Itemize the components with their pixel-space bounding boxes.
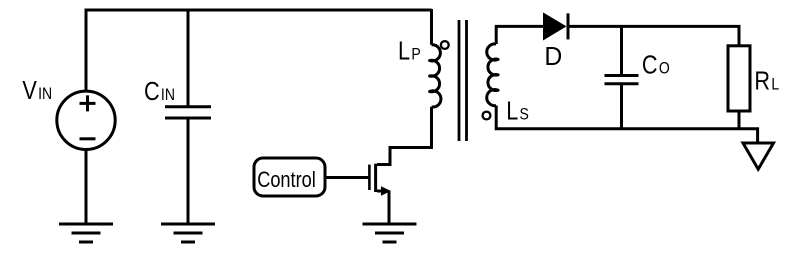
svg-text:CO: CO	[642, 52, 670, 80]
svg-text:CIN: CIN	[144, 78, 175, 106]
svg-text:RL: RL	[754, 68, 779, 96]
svg-text:LS: LS	[506, 98, 529, 126]
svg-text:Control: Control	[257, 168, 316, 192]
svg-text:LP: LP	[398, 38, 421, 66]
svg-text:VIN: VIN	[22, 77, 52, 105]
svg-text:D: D	[544, 43, 562, 71]
